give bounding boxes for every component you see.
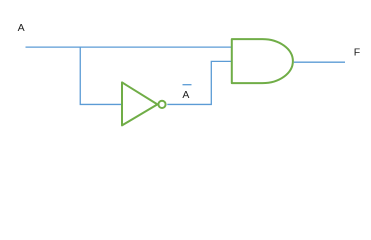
wire: NOT gate output right, up, and into AND gate bottom input (167, 61, 231, 104)
wire: branch from node A down and right to NOT gate input (80, 47, 122, 105)
wire: AND gate output to F (294, 61, 345, 63)
wire: input A to AND gate top input (26, 46, 232, 48)
AND gate U2 (232, 39, 293, 83)
svg-text:F: F (354, 47, 360, 59)
inverter U1 (NOT gate) triangle (122, 82, 157, 125)
svg-text:A: A (182, 89, 189, 101)
inverter U1 output bubble (158, 101, 165, 108)
node A-bar overbar (183, 84, 192, 86)
svg-text:A: A (18, 22, 25, 34)
